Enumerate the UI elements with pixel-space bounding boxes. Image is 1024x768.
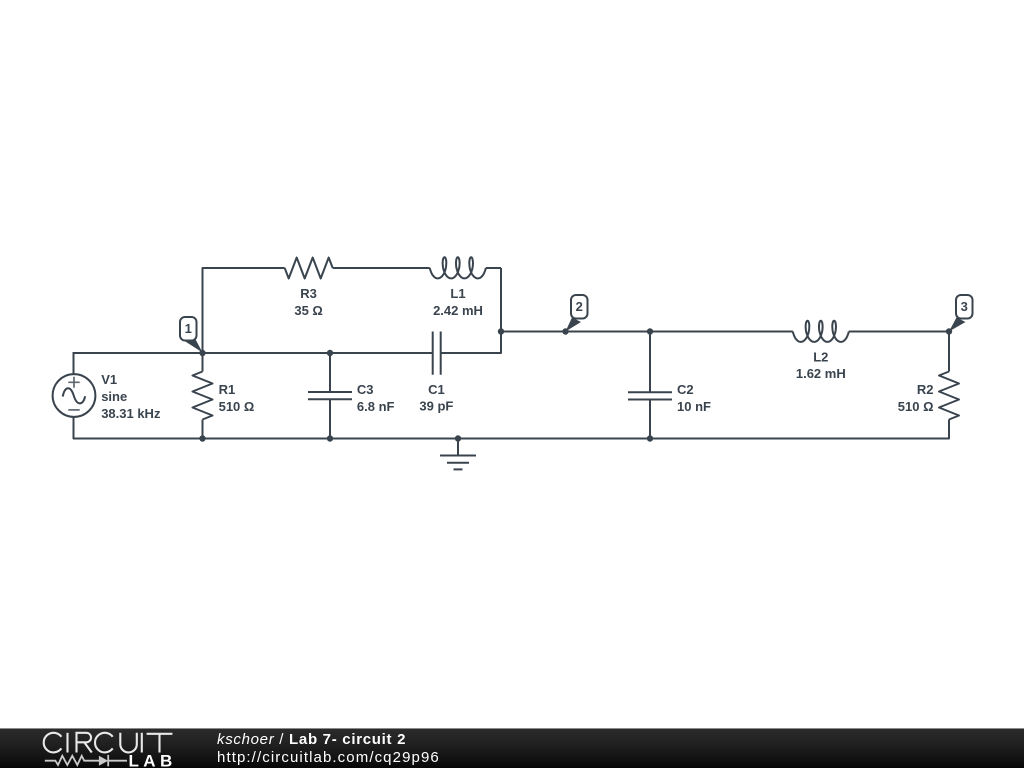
capacitor C3 plates: [308, 392, 352, 399]
svg-text:10 nF: 10 nF: [677, 399, 711, 414]
wire V1 top stem: [73, 353, 74, 374]
resistor R1: [193, 372, 213, 420]
resistor R3: [285, 258, 333, 279]
svg-text:sine: sine: [101, 389, 127, 404]
component labels: [101, 286, 933, 421]
svg-text:R1: R1: [219, 382, 236, 397]
wire C2 top stem: [649, 332, 651, 393]
svg-text:R2: R2: [917, 382, 934, 397]
svg-text:2.42 mH: 2.42 mH: [433, 303, 483, 318]
wire main left rail node1: [73, 352, 433, 354]
junction C3 top: [327, 350, 333, 356]
svg-text:2: 2: [576, 299, 583, 314]
inductor L2: [793, 321, 849, 342]
wire R2 top stem: [948, 332, 950, 372]
wire L1 right to corner: [486, 267, 501, 269]
svg-text:L2: L2: [813, 350, 828, 365]
wire R1 bottom stem: [202, 420, 204, 439]
svg-text:C2: C2: [677, 382, 694, 397]
svg-text:35 Ω: 35 Ω: [294, 303, 323, 318]
junction C3 bottom: [327, 435, 333, 441]
svg-text:R3: R3: [300, 286, 317, 301]
wire L2 right to node3 corner down: [849, 332, 949, 372]
node 1 label: [180, 317, 203, 353]
svg-text:510 Ω: 510 Ω: [898, 399, 934, 414]
inductor L1: [430, 257, 486, 278]
svg-text:LAB: LAB: [129, 752, 177, 768]
wire R3 to L1: [333, 267, 430, 269]
node 3 junction: [946, 328, 952, 334]
circuitlab logo: [0, 729, 200, 768]
junction top branch / node 2 wire: [498, 328, 504, 334]
wire C3 bottom stem: [329, 399, 331, 438]
svg-text:3: 3: [961, 299, 968, 314]
node 2 junction: [562, 328, 568, 334]
wire C2 bottom stem: [649, 400, 651, 439]
svg-text:L1: L1: [450, 286, 465, 301]
svg-text:39 pF: 39 pF: [419, 399, 453, 414]
svg-text:1: 1: [185, 321, 192, 336]
svg-text:510 Ω: 510 Ω: [219, 399, 255, 414]
voltage source V1: [53, 374, 96, 417]
junction ground: [455, 435, 461, 441]
wire C1 right to corner up: [441, 268, 501, 353]
wire top branch left vertical and to R3: [203, 268, 285, 353]
node 1 junction: [199, 350, 205, 356]
resistor R2: [939, 372, 959, 420]
footer bar: [0, 728, 1024, 768]
footer text: [217, 731, 440, 767]
wire bottom rail: [74, 417, 950, 439]
wire node2 horizontal: [501, 331, 793, 333]
node 2 label: [566, 295, 588, 332]
svg-text:C3: C3: [357, 382, 374, 397]
junction R1 bottom: [199, 435, 205, 441]
wire C3 top stem: [329, 353, 331, 392]
capacitor C2 plates: [628, 392, 672, 399]
ground: [440, 439, 476, 470]
capacitor C1 plates: [433, 332, 441, 375]
svg-text:1.62 mH: 1.62 mH: [796, 366, 846, 381]
svg-text:6.8 nF: 6.8 nF: [357, 399, 395, 414]
junction C2 top: [647, 328, 653, 334]
svg-text:V1: V1: [101, 372, 117, 387]
wire R1 top stem: [202, 353, 204, 372]
svg-text:C1: C1: [428, 382, 445, 397]
node 3 label: [949, 295, 973, 332]
junction C2 bottom: [647, 435, 653, 441]
svg-text:38.31 kHz: 38.31 kHz: [101, 406, 161, 421]
